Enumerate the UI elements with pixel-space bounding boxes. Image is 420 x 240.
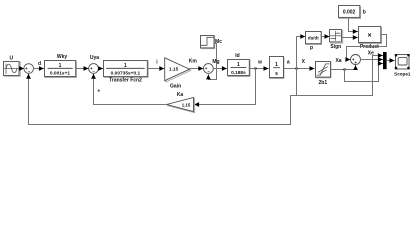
svg-text:Ka: Ka <box>177 92 184 98</box>
svg-text:p: p <box>310 45 313 51</box>
sum junction Mg <box>204 59 220 74</box>
svg-text:U: U <box>9 56 13 62</box>
svg-text:X: X <box>302 59 306 65</box>
wire Mc to Mg <box>208 44 216 80</box>
svg-text:a: a <box>287 60 290 66</box>
svg-text:Xa: Xa <box>335 58 341 64</box>
svg-text:d: d <box>38 61 41 67</box>
svg-text:Km: Km <box>189 58 198 64</box>
sign block Sign <box>330 30 343 50</box>
svg-text:–: – <box>28 69 31 74</box>
svg-text:i: i <box>156 60 158 66</box>
node d / wire sum1 to Wky <box>34 61 44 68</box>
product Product <box>359 27 382 50</box>
wire Wky to sum2 <box>76 68 89 70</box>
wire node X up to du/dt <box>297 37 306 69</box>
sum junction sum1 <box>24 64 34 74</box>
svg-text:Wky: Wky <box>57 54 68 60</box>
svg-text:0.001s+1: 0.001s+1 <box>50 71 70 77</box>
svg-text:+: + <box>97 89 100 95</box>
svg-text:+: + <box>354 60 357 65</box>
transfer function Transfer Fcn2 <box>104 61 149 84</box>
svg-text:Scope1: Scope1 <box>394 71 411 76</box>
node w / wire Id to integrator <box>249 59 268 69</box>
wire Mg to Id <box>213 68 226 70</box>
svg-text:1.15: 1.15 <box>169 66 179 72</box>
svg-text:du/dt: du/dt <box>308 35 319 40</box>
svg-text:Id: Id <box>235 53 239 59</box>
node Km / wire Gain to Mg <box>189 58 203 68</box>
svg-text:–: – <box>92 69 95 74</box>
transfer function Wky <box>45 54 77 78</box>
wire sum2 to Transfer Fcn2 <box>98 68 102 70</box>
sum junction sum3 <box>351 55 361 66</box>
svg-text:Uya: Uya <box>90 55 99 61</box>
gain Ka 1.15 <box>167 92 195 113</box>
svg-text:0.00735s+0.1: 0.00735s+0.1 <box>111 71 141 77</box>
transfer function Id <box>228 53 251 76</box>
wire du/dt to Sign <box>321 36 329 38</box>
wire constant 0.002 to Product input 1 <box>349 18 358 32</box>
wire node X to Mux input 1 <box>297 56 383 96</box>
svg-text:–: – <box>207 69 210 74</box>
integrator 1/s <box>270 57 284 79</box>
svg-text:0.188s: 0.188s <box>231 70 246 76</box>
node Xa / wire dead zone to sum3 <box>331 58 356 71</box>
svg-text:s: s <box>275 71 278 77</box>
derivative du/dt <box>306 32 322 51</box>
wire node w to gain Ka <box>194 69 255 105</box>
svg-text:Sign: Sign <box>330 44 341 50</box>
svg-text:1: 1 <box>237 62 240 68</box>
gain Gain 1.15 <box>165 58 191 90</box>
node a / wire integrator to dead zone / node X <box>284 59 315 69</box>
svg-text:w: w <box>257 59 262 65</box>
wire Xa to Mux input 3 <box>345 64 383 82</box>
wire U to sum1 <box>19 68 24 70</box>
wire Ka to sum2 <box>94 74 167 105</box>
dead zone 2b1 <box>316 62 331 86</box>
step source Mc <box>201 36 223 49</box>
constant 0.002 <box>339 6 366 19</box>
svg-text:0.002: 0.002 <box>343 10 356 16</box>
wire Mux to Scope1 <box>387 60 395 62</box>
node i / wire Transfer Fcn2 to Gain <box>147 60 164 69</box>
svg-text:b: b <box>363 10 366 16</box>
source U <box>4 56 21 77</box>
svg-text:2b1: 2b1 <box>318 80 327 86</box>
svg-text:Mg: Mg <box>212 59 219 65</box>
sum junction sum2 <box>89 55 100 74</box>
svg-text:×: × <box>368 33 372 40</box>
wire node X to sum1 outer feedback <box>29 74 297 125</box>
mux Mux <box>383 52 387 69</box>
svg-text:Gain: Gain <box>170 83 181 89</box>
svg-text:1.15: 1.15 <box>182 102 191 107</box>
wire Sign to Product input 2 <box>342 37 358 39</box>
node Xe / wire sum3 to Mux input 2 <box>361 51 383 60</box>
svg-text:Transfer Fcn2: Transfer Fcn2 <box>109 78 142 84</box>
scope Scope1 <box>394 54 411 76</box>
wire Product to sum3 <box>347 35 387 60</box>
